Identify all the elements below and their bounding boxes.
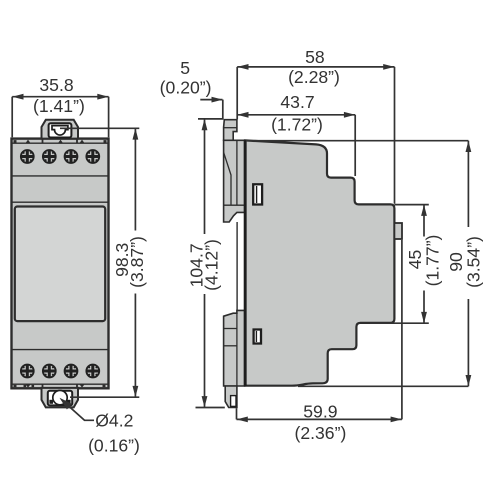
- side view: middle recessed front line: [236, 222, 238, 313]
- svg-text:(2.28”): (2.28”): [288, 67, 340, 87]
- front view: top edge ticks: [14, 140, 107, 144]
- front view: separation line above bottom terminals: [12, 349, 108, 351]
- svg-text:(0.16”): (0.16”): [88, 436, 140, 456]
- front view: module body: [12, 139, 109, 389]
- side view: lower block cover edge: [236, 313, 238, 386]
- svg-text:59.9: 59.9: [303, 401, 337, 421]
- dimension 104.7 overall height, side view: [196, 119, 225, 408]
- side view: front cover top ear: [224, 120, 237, 141]
- dimension 58 depth, side view: [237, 67, 394, 204]
- side view: top latch inner line: [256, 186, 258, 203]
- dimension 45 rail section, side view: [370, 205, 429, 324]
- side view: upper block cover edge: [236, 140, 238, 205]
- svg-text:43.7: 43.7: [280, 92, 314, 112]
- svg-text:35.8: 35.8: [39, 75, 73, 95]
- dimension 35.8 width, front view: [12, 97, 108, 138]
- side view: front cover lower block: [224, 310, 245, 386]
- side view: rear connector tab: [394, 223, 402, 239]
- side view: front cover top ear seam: [224, 127, 237, 129]
- svg-text:Ø4.2: Ø4.2: [95, 411, 133, 431]
- svg-text:(3.87”): (3.87”): [127, 236, 147, 288]
- front view: top DIN clip: [42, 120, 79, 139]
- dimension 98.3 height, front view: [60, 128, 139, 397]
- side view: top latch: [253, 184, 262, 204]
- front view: bottom DIN clip: [42, 388, 79, 408]
- front view: separation line above display: [12, 201, 108, 203]
- front view: bottom clip side notches: [49, 400, 53, 404]
- dimension 59.9 overall depth, side view: [237, 240, 402, 419]
- svg-text:(2.36”): (2.36”): [294, 423, 346, 443]
- front view: top clip keyhole: [52, 126, 68, 135]
- front view: bottom clip side lines into edge band: [42, 384, 44, 388]
- side view: foot slot: [231, 396, 236, 407]
- front view: top edge inner line: [12, 142, 108, 144]
- front view: bottom clip inner window: [48, 391, 72, 406]
- svg-text:58: 58: [305, 47, 325, 67]
- dimension 90 body height, side view: [246, 141, 468, 387]
- front view: bottom edge ticks: [14, 384, 106, 387]
- side view: bottom foot: [225, 386, 237, 408]
- front view: bottom edge inner line: [12, 383, 108, 385]
- front view: separation line under top terminals: [12, 175, 108, 177]
- front view: display window: [15, 207, 105, 322]
- front view: bottom terminal screws: [21, 364, 34, 377]
- side view: upper block seam diagonal: [224, 152, 231, 205]
- side view: heavy front body line: [244, 140, 247, 386]
- side view: bottom latch inner line: [255, 331, 257, 342]
- dimension 43.7, side view: [237, 115, 355, 176]
- svg-text:(1.77”): (1.77”): [422, 235, 442, 287]
- svg-text:(0.20”): (0.20”): [160, 78, 212, 98]
- front view: bottom clip hole: [53, 390, 67, 404]
- side view: lower block seam lines: [224, 328, 238, 330]
- svg-text:(1.41”): (1.41”): [33, 96, 85, 116]
- side view: front cover upper block: [224, 140, 245, 222]
- leader and label for hole diameter 4.2: [68, 406, 94, 421]
- side view: main body profile: [245, 140, 394, 385]
- svg-text:(1.72”): (1.72”): [271, 114, 323, 134]
- svg-text:(3.54”): (3.54”): [464, 236, 484, 288]
- front view: top clip inner window: [49, 123, 72, 137]
- side view: bottom latch: [254, 330, 261, 344]
- dimension 5 front lip, side view: [200, 100, 223, 119]
- side view: upper block seam horizontal: [224, 204, 245, 206]
- svg-text:(4.12”): (4.12”): [202, 239, 222, 291]
- front view: top terminal screws: [21, 150, 34, 163]
- svg-text:5: 5: [180, 58, 190, 78]
- front view: top clip side lines into edge band: [42, 139, 44, 144]
